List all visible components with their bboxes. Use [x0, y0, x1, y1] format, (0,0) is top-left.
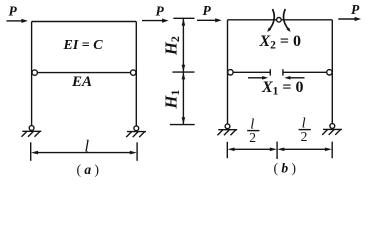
dimension l/2 + l/2 (frame b): ticks, lines, arrowheads, fraction labels	[227, 116, 332, 159]
pin support (b, right): circle, ground line, hatching	[322, 124, 342, 135]
svg-text:( a ): ( a )	[77, 162, 100, 177]
fraction l/2 (right)	[299, 116, 311, 144]
svg-text:2: 2	[301, 129, 308, 144]
svg-text:X1 = 0: X1 = 0	[261, 79, 304, 98]
pin support (a, right): circle, ground line, hatching	[126, 126, 146, 137]
hinge circle (b, left end of tie)	[228, 70, 233, 75]
moment arrow arc (right of cut)	[284, 9, 291, 32]
frame b left column	[227, 20, 229, 124]
frame b right column	[331, 20, 333, 124]
svg-text:EI = C: EI = C	[63, 38, 104, 53]
load arrow P (frame b, top-left)	[197, 3, 222, 22]
pin support (a, left): circle, ground line, hatching	[22, 126, 42, 137]
frame a right column	[135, 22, 137, 127]
svg-text:P: P	[351, 2, 360, 17]
svg-text:EA: EA	[71, 74, 92, 90]
fraction l/2 (left)	[247, 117, 259, 145]
dimension l (frame a): extension ticks, dimension line, arrowheads, label	[31, 136, 137, 161]
frame a middle tie beam EA	[37, 72, 130, 74]
moment arrow arc (left of cut)	[267, 9, 274, 32]
frame b tie beam right segment with cut end tick	[283, 69, 327, 75]
svg-text:P: P	[203, 3, 212, 18]
moment release hinge circle at cut X2	[277, 18, 282, 23]
force arrow X1 (right, pointing left)	[284, 76, 304, 80]
frame b top beam right segment	[281, 19, 332, 21]
svg-text:X2 = 0: X2 = 0	[259, 33, 302, 52]
pin support (b, left): circle, ground line, hatching	[217, 124, 237, 135]
svg-text:( b ): ( b )	[274, 161, 297, 176]
frame a top beam	[32, 21, 137, 23]
frame a left column	[31, 22, 33, 126]
frame b tie beam left segment with cut end tick	[233, 69, 270, 75]
load arrow P (frame a, top-left)	[7, 4, 28, 23]
svg-text:2: 2	[249, 130, 256, 145]
hinge circle (b, right end of tie)	[327, 70, 332, 75]
svg-text:P: P	[9, 4, 18, 19]
frame b top beam left segment	[228, 19, 277, 21]
svg-text:P: P	[156, 4, 165, 19]
svg-text:l: l	[85, 136, 90, 155]
height dimension H2: ticks, line, arrowheads, label	[162, 18, 195, 72]
height dimension H1: ticks, line, arrowheads, label	[162, 72, 195, 125]
hinge circle (a, right end of EA)	[131, 70, 136, 75]
hinge circle (a, left end of EA)	[32, 70, 37, 75]
force arrow X1 (left, pointing right)	[248, 76, 268, 80]
load arrow P (frame a, top-right)	[142, 4, 169, 23]
load arrow P (frame b, top-right)	[338, 2, 361, 21]
